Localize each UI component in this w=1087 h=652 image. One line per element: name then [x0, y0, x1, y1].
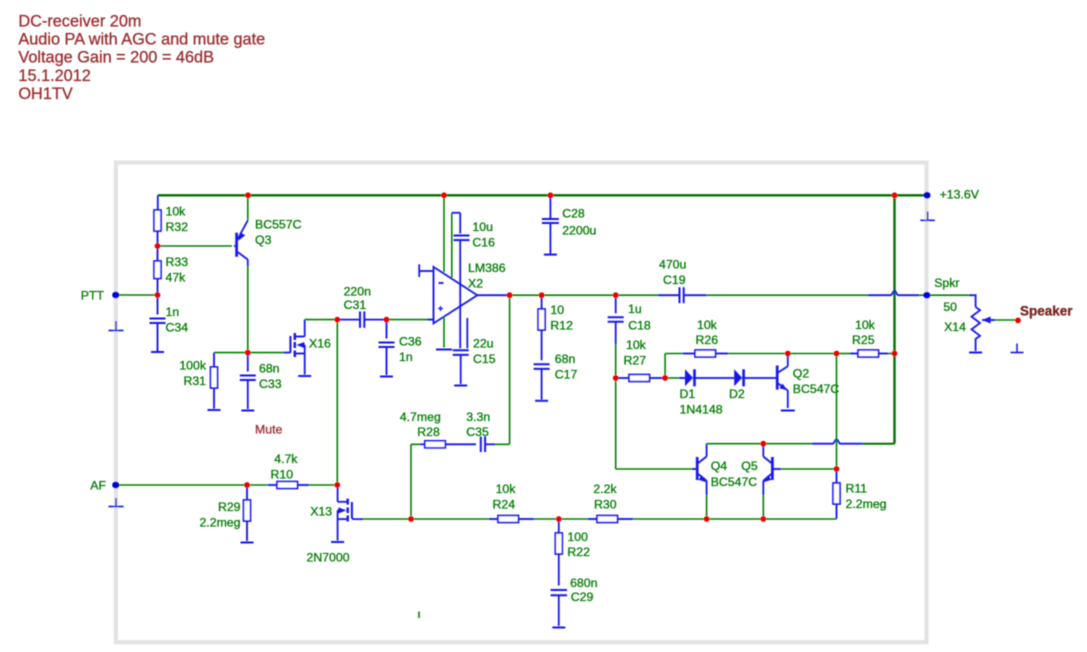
svg-text:DC-receiver 20m: DC-receiver 20m — [18, 13, 141, 31]
svg-text:X14: X14 — [944, 320, 966, 334]
svg-text:C35: C35 — [466, 425, 489, 439]
svg-text:R22: R22 — [567, 545, 590, 559]
svg-text:15.1.2012: 15.1.2012 — [18, 67, 90, 85]
svg-text:10k: 10k — [626, 338, 647, 352]
svg-text:1N4148: 1N4148 — [680, 403, 723, 417]
svg-text:2N7000: 2N7000 — [307, 550, 350, 564]
svg-text:470u: 470u — [659, 258, 687, 272]
svg-text:X13: X13 — [310, 504, 332, 518]
svg-text:R32: R32 — [166, 220, 189, 234]
svg-text:2.2meg: 2.2meg — [199, 515, 240, 529]
svg-text:R28: R28 — [417, 425, 440, 439]
svg-text:Q4: Q4 — [711, 459, 728, 473]
svg-text:Speaker: Speaker — [1020, 303, 1073, 318]
svg-text:LM386: LM386 — [468, 261, 506, 275]
svg-text:Spkr: Spkr — [934, 276, 959, 290]
svg-text:D2: D2 — [729, 387, 745, 401]
svg-text:C28: C28 — [562, 207, 585, 221]
svg-text:D1: D1 — [680, 387, 696, 401]
svg-text:C16: C16 — [472, 236, 495, 250]
svg-text:C17: C17 — [555, 368, 578, 382]
svg-text:C34: C34 — [166, 321, 189, 335]
svg-text:100k: 100k — [179, 359, 207, 373]
svg-text:C19: C19 — [663, 273, 686, 287]
svg-text:R33: R33 — [166, 255, 189, 269]
svg-text:Voltage Gain = 200 = 46dB: Voltage Gain = 200 = 46dB — [18, 49, 214, 67]
svg-text:1u: 1u — [628, 302, 642, 316]
svg-text:X16: X16 — [309, 337, 331, 351]
svg-text:100: 100 — [567, 530, 588, 544]
svg-text:68n: 68n — [259, 362, 280, 376]
svg-text:R10: R10 — [271, 467, 294, 481]
svg-text:BC547C: BC547C — [793, 382, 840, 396]
svg-text:50: 50 — [943, 300, 957, 314]
svg-text:PTT: PTT — [81, 289, 105, 303]
svg-text:10: 10 — [550, 303, 564, 317]
svg-text:X2: X2 — [468, 277, 483, 291]
svg-text:4.7k: 4.7k — [274, 452, 298, 466]
svg-text:220n: 220n — [344, 284, 372, 298]
svg-text:10u: 10u — [472, 220, 493, 234]
svg-text:R27: R27 — [624, 353, 647, 367]
svg-text:R24: R24 — [493, 497, 516, 511]
svg-text:2200u: 2200u — [562, 224, 596, 238]
svg-text:BC557C: BC557C — [255, 218, 302, 232]
svg-text:680n: 680n — [570, 576, 598, 590]
svg-text:Q5: Q5 — [741, 459, 758, 473]
svg-text:Mute: Mute — [255, 423, 282, 437]
svg-text:10k: 10k — [166, 205, 187, 219]
svg-text:R30: R30 — [594, 497, 617, 511]
svg-text:AF: AF — [90, 479, 106, 493]
svg-text:4.7meg: 4.7meg — [400, 410, 441, 424]
svg-text:R12: R12 — [550, 319, 573, 333]
svg-text:1n: 1n — [399, 350, 413, 364]
svg-text:C18: C18 — [628, 318, 651, 332]
svg-text:2.2k: 2.2k — [593, 482, 617, 496]
svg-text:22u: 22u — [473, 337, 494, 351]
svg-text:R26: R26 — [696, 333, 719, 347]
svg-text:BC547C: BC547C — [711, 475, 758, 489]
svg-text:R25: R25 — [852, 333, 875, 347]
svg-text:10k: 10k — [697, 318, 718, 332]
svg-text:R31: R31 — [183, 374, 206, 388]
svg-text:10k: 10k — [496, 482, 517, 496]
svg-text:68n: 68n — [555, 352, 576, 366]
svg-text:C33: C33 — [259, 377, 282, 391]
svg-text:R29: R29 — [218, 500, 241, 514]
svg-text:R11: R11 — [846, 482, 868, 496]
svg-text:47k: 47k — [166, 271, 187, 285]
svg-text:C29: C29 — [571, 590, 594, 604]
svg-text:C31: C31 — [344, 298, 367, 312]
svg-text:C36: C36 — [399, 335, 422, 349]
svg-text:OH1TV: OH1TV — [18, 85, 72, 103]
svg-text:3.3n: 3.3n — [466, 410, 490, 424]
svg-text:Q2: Q2 — [793, 367, 810, 381]
svg-text:Audio PA with AGC and mute gat: Audio PA with AGC and mute gate — [18, 31, 265, 49]
svg-text:C15: C15 — [473, 352, 496, 366]
svg-text:2.2meg: 2.2meg — [846, 497, 887, 511]
svg-text:10k: 10k — [855, 318, 876, 332]
svg-text:Q3: Q3 — [255, 233, 272, 247]
svg-text:1n: 1n — [166, 305, 180, 319]
svg-text:+13.6V: +13.6V — [940, 188, 980, 202]
